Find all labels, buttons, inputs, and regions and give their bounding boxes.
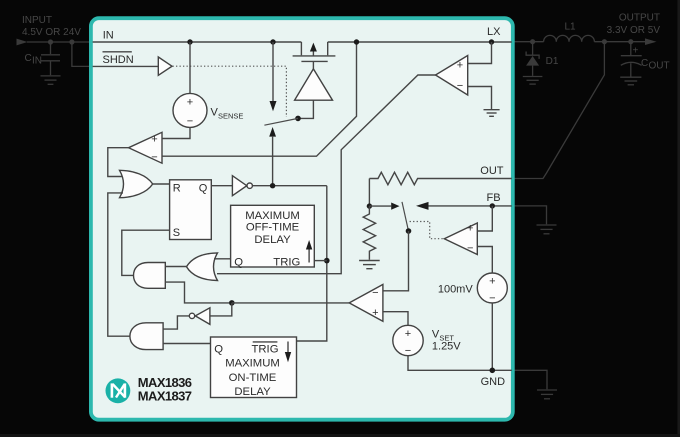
inverter U-inv1	[232, 176, 246, 196]
maxim logo	[106, 378, 131, 403]
svg-text:TRIG: TRIG	[252, 344, 279, 356]
svg-text:IN: IN	[103, 30, 114, 42]
svg-text:Q: Q	[199, 182, 208, 194]
arrow down inside on-time box	[287, 342, 289, 354]
ground at GND	[537, 389, 557, 391]
wire IN rail	[93, 41, 302, 43]
delay U-offtime box	[231, 205, 315, 267]
wire OR2 output to AND1 input	[165, 266, 186, 268]
svg-text:R: R	[173, 182, 181, 194]
svg-text:ON-TIME: ON-TIME	[229, 372, 277, 384]
IC block MAX1836/MAX1837	[91, 18, 513, 420]
node input junction 2	[69, 39, 74, 44]
buffer U-shdn	[158, 57, 172, 75]
or-gate OR1	[120, 170, 153, 197]
svg-text:L1: L1	[565, 22, 577, 33]
divider resistor R1 (horizontal)	[369, 172, 511, 184]
arrow right (switch throw a)	[369, 205, 391, 207]
source VSENSE	[173, 93, 207, 127]
svg-text:OUT: OUT	[480, 165, 504, 177]
node LX-D1 junction	[530, 39, 535, 44]
svg-text:1.25V: 1.25V	[432, 341, 461, 353]
node LX diag junction	[354, 39, 359, 44]
svg-text:SHDN: SHDN	[103, 54, 134, 66]
comparator U-fbsel	[477, 206, 492, 231]
wire LX rail	[328, 41, 512, 43]
inverter U-inv2 (mirrored)	[195, 308, 210, 325]
svg-text:OUT: OUT	[649, 61, 670, 72]
svg-text:TRIG: TRIG	[273, 256, 300, 268]
wire VSET to GND rail	[408, 356, 512, 371]
wire comparator minus long line and diagonal to LX comparator output	[162, 42, 357, 156]
svg-text:S: S	[173, 227, 180, 239]
delay U-ontime box	[211, 337, 297, 398]
wire 100mV to gnd	[491, 303, 493, 370]
wire SHDN branch	[72, 42, 92, 66]
node L1-output junction	[602, 39, 607, 44]
svg-text:+: +	[457, 60, 463, 72]
wire OR2 top input to off-time Q	[214, 258, 231, 260]
node GND junction	[490, 368, 496, 374]
ground below R2	[359, 260, 380, 262]
ground below COUT	[620, 76, 641, 78]
svg-text:4.5V OR 24V: 4.5V OR 24V	[22, 27, 81, 38]
and-gate AND1 (mirrored)	[134, 263, 166, 289]
svg-text:−: −	[467, 243, 473, 255]
diode D1 (schottky)	[532, 42, 534, 55]
wire OR1 output to R	[153, 183, 170, 185]
svg-text:SENSE: SENSE	[218, 112, 243, 121]
output arrow	[645, 38, 657, 45]
wire input line to IN pin	[27, 41, 92, 43]
svg-text:−: −	[405, 345, 411, 357]
wire inverter1 output rail	[252, 185, 326, 187]
svg-text:−: −	[457, 80, 463, 92]
svg-text:+: +	[187, 96, 193, 108]
ground at LX comparator	[484, 109, 500, 111]
node IN-Vsense junction	[187, 39, 192, 44]
svg-text:3.3V OR 5V: 3.3V OR 5V	[607, 25, 661, 36]
wire node A to inverter2 input	[210, 303, 232, 316]
arrow left (switch throw b / FB)	[416, 202, 429, 210]
wire AND1 lower input from node A	[165, 282, 229, 303]
source 100mV	[477, 273, 507, 303]
svg-text:−: −	[151, 151, 157, 163]
node input junction 1	[48, 39, 53, 44]
wire FB external	[512, 206, 547, 224]
svg-text:IN: IN	[32, 56, 42, 67]
wire OR1 lower input rail from AND2 output	[108, 193, 130, 336]
node FB pin junction	[490, 203, 495, 208]
svg-text:−: −	[372, 287, 378, 299]
node inverter1 junction	[270, 183, 275, 188]
svg-text:MAX1837: MAX1837	[138, 388, 192, 403]
resistor R2 (vertical)	[363, 206, 375, 260]
svg-text:−: −	[187, 115, 193, 127]
wire Q to inverter1	[211, 185, 232, 187]
wire inverter2 output to AND2	[163, 316, 189, 329]
wire GND external	[512, 370, 547, 389]
ground below CIN	[41, 75, 61, 77]
svg-text:DELAY: DELAY	[254, 234, 291, 246]
svg-text:−: −	[489, 293, 495, 305]
comparator U-lx	[468, 42, 492, 64]
svg-text:+: +	[467, 223, 473, 235]
svg-text:Q: Q	[214, 344, 223, 356]
node trig junction	[324, 258, 330, 264]
wire driver output to switch	[300, 100, 313, 118]
inductor L1	[544, 35, 595, 41]
wire trig dot to box	[314, 260, 327, 262]
svg-text:MAXIMUM: MAXIMUM	[225, 357, 280, 369]
wire SHDN line	[93, 65, 159, 67]
comparator U-error	[383, 231, 409, 291]
svg-text:MAXIMUM: MAXIMUM	[245, 210, 300, 222]
svg-text:OFF-TIME: OFF-TIME	[246, 222, 300, 234]
wire to off-time trig and on-time trig	[297, 186, 327, 341]
or-gate OR2 (mirrored)	[187, 253, 218, 281]
and-gate AND2 (mirrored)	[130, 323, 163, 350]
wire OUT external diagonal	[512, 42, 604, 179]
comparator U-sense	[129, 132, 162, 163]
node divider tap	[367, 203, 372, 208]
wire down-arrow from IN to switch	[272, 42, 274, 102]
node COUT junction	[628, 39, 633, 44]
source VSET 1.25V	[393, 325, 423, 355]
node switch common	[295, 116, 301, 122]
capacitor CIN	[50, 42, 52, 54]
wire dotted shdn control	[173, 66, 287, 117]
svg-text:+: +	[405, 328, 411, 340]
svg-text:LX: LX	[487, 26, 501, 38]
wire VSENSE to comparator	[162, 127, 190, 138]
svg-text:D1: D1	[546, 56, 559, 67]
node A junction	[229, 300, 235, 306]
svg-text:+: +	[633, 46, 639, 57]
transistor Q1 pmos	[300, 42, 302, 55]
wire IN-sense diagonal to OR2	[217, 75, 436, 274]
switch blade fb	[402, 202, 409, 231]
svg-text:C: C	[25, 53, 32, 64]
svg-text:GND: GND	[481, 376, 506, 388]
svg-text:DELAY: DELAY	[234, 386, 271, 398]
wire S input	[122, 230, 170, 275]
wire comparator output to OR1	[108, 148, 129, 177]
svg-text:+: +	[372, 307, 378, 319]
wire dotted fb switch control	[410, 222, 444, 239]
svg-text:OUTPUT: OUTPUT	[619, 13, 660, 24]
wire LX external line	[512, 41, 544, 43]
switch blade	[264, 118, 298, 125]
node IN-switch junction	[270, 39, 275, 44]
svg-text:Q: Q	[234, 256, 243, 268]
svg-text:+: +	[151, 134, 157, 146]
svg-text:FB: FB	[487, 192, 501, 204]
node LX pin junction	[489, 39, 494, 44]
wire to VSENSE	[189, 42, 191, 94]
svg-text:C: C	[641, 58, 648, 69]
svg-text:100mV: 100mV	[438, 284, 474, 296]
wire up-arrow under switch	[269, 127, 276, 137]
ground at FB	[537, 224, 557, 226]
ground below D1	[523, 76, 543, 78]
node fb switch common	[406, 228, 412, 234]
capacitor COUT (polarized)	[630, 42, 632, 55]
svg-text:+: +	[489, 276, 495, 288]
latch U-sr	[170, 180, 212, 240]
wire node A to error comparator output	[232, 302, 349, 304]
arrow up inside off-time box	[308, 248, 310, 263]
svg-text:INPUT: INPUT	[22, 15, 52, 26]
amp U-driver	[295, 69, 333, 100]
wire AND2 lower input to on-time Q	[163, 343, 210, 345]
input source arrow	[17, 39, 28, 46]
wire divider left leg	[368, 179, 370, 207]
